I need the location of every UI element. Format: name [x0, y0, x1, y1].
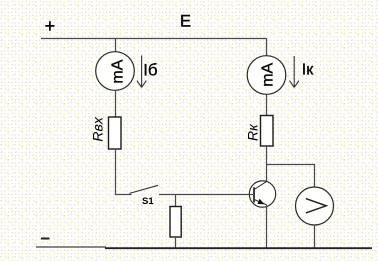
- ammeter PA2 (mA, collector current): [247, 56, 286, 95]
- wire meter to Rвх: [115, 90, 117, 117]
- svg-text:mA: mA: [110, 59, 127, 83]
- wire meter to Rк: [266, 94, 268, 115]
- resistor Rк: [245, 116, 274, 147]
- svg-text:S1: S1: [142, 196, 154, 207]
- wire voltmeter to bottom rail: [314, 225, 316, 248]
- wire top rail E: [41, 38, 267, 40]
- switch S1: [115, 185, 158, 207]
- svg-text:Rк: Rк: [245, 123, 261, 141]
- wire left drop from rail to mA meter: [115, 38, 117, 52]
- resistor Rвх: [90, 116, 121, 149]
- ammeter PA1 (mA, base current): [96, 52, 135, 91]
- node - (negative terminal label): [41, 238, 50, 240]
- wire base node down to R: [175, 195, 177, 207]
- wire collector node to voltmeter: [267, 165, 315, 188]
- arrow Iб (base current direction): [137, 56, 158, 88]
- transistor VT1: [249, 181, 275, 207]
- arrow Iк (collector current direction): [290, 56, 315, 87]
- resistor R (base bias): [170, 207, 181, 238]
- wire switch to base node: [159, 194, 250, 196]
- wire bottom rail (bus): [105, 247, 372, 249]
- svg-text:Rвх: Rвх: [90, 116, 106, 141]
- svg-text:mA: mA: [259, 62, 276, 86]
- wire base lead into transistor: [249, 194, 254, 196]
- wire R to bottom rail: [175, 237, 177, 248]
- svg-text:Iб: Iб: [143, 60, 158, 79]
- svg-text:Iк: Iк: [302, 62, 314, 79]
- svg-text:+: +: [45, 16, 56, 36]
- wire right drop from rail to mA meter: [266, 38, 268, 56]
- wire Rк down to collector: [266, 146, 268, 181]
- wire Rвх to switch: [115, 149, 117, 195]
- wire emitter down to bottom rail: [266, 205, 268, 248]
- voltmeter PV1: [296, 187, 334, 225]
- svg-text:E: E: [180, 13, 191, 31]
- wire bottom rail (thin left part): [36, 246, 106, 248]
